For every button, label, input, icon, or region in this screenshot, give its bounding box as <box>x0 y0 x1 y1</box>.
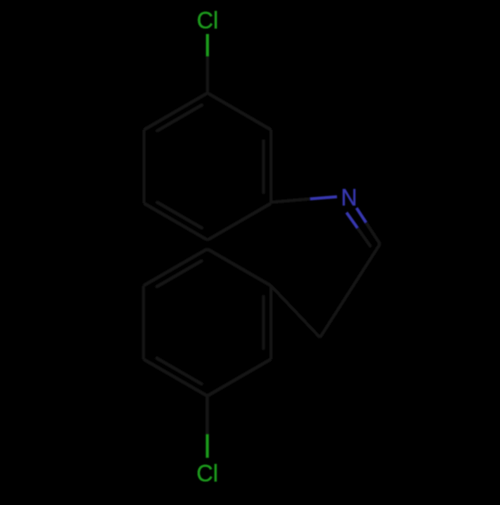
wire: N=CH main line nitrogen half <box>357 208 367 223</box>
ring 2 inner double-bond line (upper-left edge) <box>156 260 203 287</box>
ring 1 edge V6-V1 <box>144 93 208 130</box>
svg-text:N: N <box>341 184 357 211</box>
ring 2 inner double-bond line (lower-left edge) <box>156 357 203 384</box>
ring 1 benzene (top) edge V1-V2 <box>208 93 272 130</box>
ring 1 edge V2-V3 <box>270 130 273 204</box>
wire: C-Cl top bond chlorine half <box>206 34 209 56</box>
wire: C-Cl bottom bond carbon half <box>206 396 209 434</box>
wire: N=CH inner line carbon half <box>358 228 372 247</box>
ring 1 edge V3-V4 <box>208 203 272 240</box>
ring 2 inner double-bond line (right edge) <box>262 295 265 349</box>
ring 1 inner double-bond line (upper-left edge) <box>156 104 203 131</box>
ring 1 edge V5-V6 <box>143 130 146 204</box>
wire: CH to CH2 long chain bond <box>320 244 380 338</box>
wire: CH2 to ring 2 bond <box>271 286 320 338</box>
ring 1 inner double-bond line (right edge) <box>262 139 265 193</box>
wire: C-Cl top bond carbon half <box>206 56 209 93</box>
ring 2 edge W3-W4 <box>144 249 208 286</box>
wire: ring1 C3 to N bond, carbon half <box>271 199 310 202</box>
ring 2 edge W2-W3 <box>142 286 145 360</box>
ring 2 edge W4-W5 <box>207 249 271 286</box>
wire: N=CH main line carbon half <box>366 223 380 245</box>
ring 1 inner double-bond line (lower-left edge) <box>156 202 203 229</box>
wire: N=CH inner line nitrogen half <box>347 213 358 229</box>
ring 1 edge V4-V5 <box>144 203 208 240</box>
wire: ring1-N bond nitrogen half <box>310 197 337 199</box>
svg-text:Cl: Cl <box>197 7 219 33</box>
wire: C-Cl bottom bond chlorine half <box>206 434 209 458</box>
ring 2 edge W6-W1 <box>207 359 271 396</box>
ring 2 benzene (bottom) edge W1-W2 <box>144 359 208 396</box>
svg-text:Cl: Cl <box>197 460 219 486</box>
ring 2 edge W5-W6 <box>269 286 272 360</box>
